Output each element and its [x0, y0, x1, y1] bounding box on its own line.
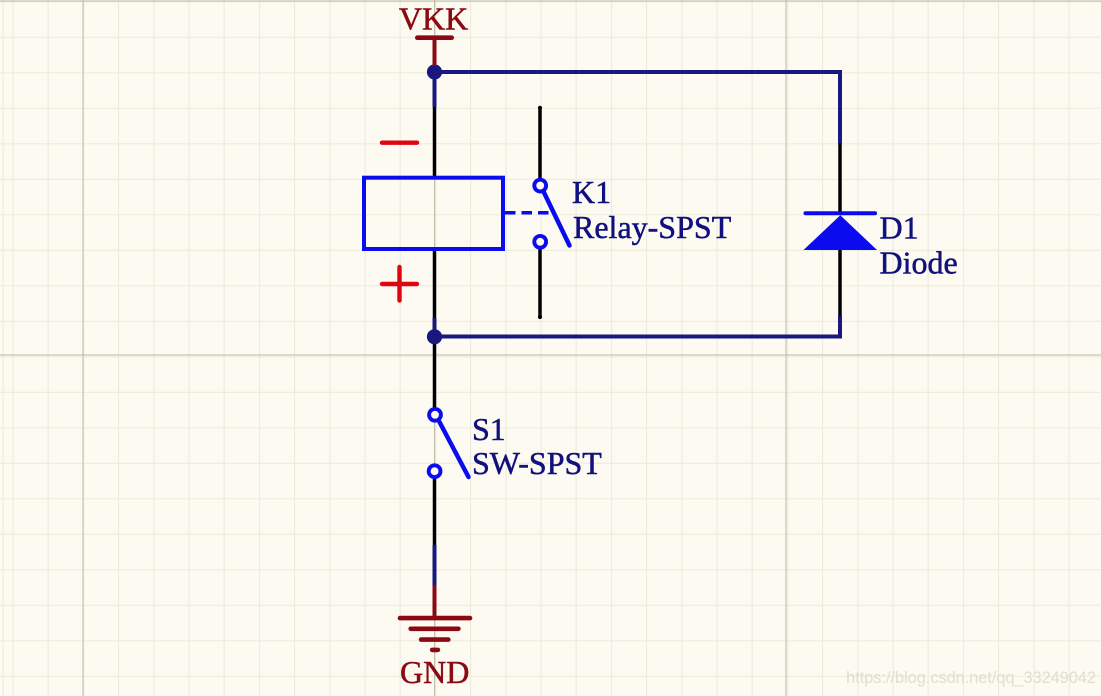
pin tip dot: K1 top [538, 106, 542, 110]
node: top junction dot [427, 64, 442, 79]
svg-text:https://blog.csdn.net/qq_33249: https://blog.csdn.net/qq_33249042 [846, 669, 1096, 687]
major grid line horizontal y=1 [0, 0, 1101, 2]
relay K1 switch blade [544, 192, 570, 246]
major grid line vertical x=83 [82, 0, 84, 696]
svg-text:Diode: Diode [880, 244, 958, 280]
polarity minus sign (red) [382, 140, 417, 144]
power port VKK bar [417, 35, 451, 40]
svg-text:Relay-SPST: Relay-SPST [573, 209, 732, 245]
pin: relay K1 coil top pin [433, 107, 437, 178]
relay K1 linkage dashed line [505, 211, 549, 215]
wire: right vertical upper (to D1 top pin) [838, 70, 842, 143]
ground symbol bar 2 [411, 626, 459, 631]
wire: stub below top junction [433, 72, 437, 107]
pin: D1 top pin [838, 143, 842, 212]
pin: K1 switch bottom pin [538, 250, 542, 317]
wire: bottom horizontal back to junction [435, 335, 843, 339]
pin: D1 bottom pin [838, 250, 842, 316]
pin: S1 top pin [433, 337, 437, 408]
switch S1 bottom contact circle [429, 465, 441, 477]
switch S1 blade [440, 422, 469, 477]
pin tip dot: K1 bottom [538, 315, 542, 319]
relay K1 switch contact bottom circle [534, 236, 546, 248]
wire: right vertical lower (from D1 bottom pin) [838, 316, 842, 339]
major grid line vertical x=434.6 [434, 0, 436, 696]
svg-text:K1: K1 [572, 174, 611, 210]
major grid line horizontal y=356 [0, 354, 1101, 356]
ground symbol bar 1 [400, 616, 470, 621]
ground symbol bar 3 [421, 637, 448, 642]
pin: K1 switch top pin [538, 109, 542, 178]
svg-text:GND: GND [400, 654, 469, 690]
relay K1 switch contact top circle [534, 180, 546, 192]
pin: relay K1 coil bottom pin [433, 249, 437, 318]
polarity plus sign (red) [382, 267, 417, 301]
major grid line vertical x=786 [785, 0, 787, 696]
svg-text:SW-SPST: SW-SPST [472, 445, 602, 481]
svg-text:D1: D1 [880, 210, 919, 246]
node: bottom junction dot [427, 329, 442, 344]
wire: stub above bottom junction [433, 318, 437, 337]
power port VKK stem [433, 38, 437, 66]
ground symbol stem [433, 585, 437, 620]
switch S1 top contact circle [429, 409, 441, 421]
diode D1 triangle [804, 215, 878, 250]
wire: top horizontal from node VKK junction to diode branch [435, 70, 841, 74]
wire: stub below S1 to GND [433, 545, 437, 585]
svg-text:S1: S1 [472, 411, 506, 447]
diode D1 cathode bar [806, 211, 876, 215]
pin: S1 bottom pin [433, 479, 437, 546]
ground symbol bar 4 [432, 648, 438, 653]
relay K1 coil body rectangle [364, 178, 503, 249]
svg-text:VKK: VKK [399, 1, 468, 37]
